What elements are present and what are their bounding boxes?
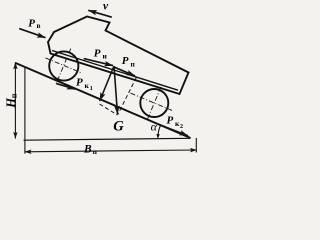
angle alpha arc [158,126,161,138]
wheel right [140,89,168,117]
svg-text:п: п [10,93,19,98]
wheel right axis perpendicular (dash-dot) [147,87,161,121]
force P_k1 (rolling resistance front) arrow on incline [56,84,75,90]
svg-text:P: P [76,77,83,89]
velocity vector v [88,10,112,17]
normal component arrow from CG [100,66,114,101]
svg-text:P: P [28,17,35,29]
svg-text:п: п [131,60,136,69]
truck body outline [48,17,189,95]
svg-text:P: P [94,47,101,59]
label H_p (rotated) [4,93,19,109]
weight G arrow [114,66,118,114]
force P_k2 (rolling resistance rear) arrow on incline [159,124,189,136]
ground base line [24,138,191,140]
dashed parallelogram side 1 [100,104,118,115]
svg-text:В: В [83,143,92,155]
wheel left axis along slope (dash-dot) [46,58,82,73]
svg-text:в: в [37,21,41,30]
svg-text:P: P [122,55,129,67]
B dimension line [25,150,197,152]
svg-text:G: G [113,118,124,134]
right extension line [195,138,197,153]
svg-text:P: P [167,115,174,127]
chassis line [52,51,178,91]
incline vertical edge / left extension line [24,67,26,154]
H dimension line [14,63,16,139]
svg-text:к: к [85,81,90,90]
wheel right axis along slope (dash-dot) [131,93,173,111]
svg-text:2: 2 [180,124,183,130]
wheel left axis perpendicular (dash-dot) [56,49,71,85]
force P_p (grade resistance) arrow [114,67,136,76]
svg-text:и: и [103,52,108,61]
svg-text:1: 1 [90,86,93,92]
dashed parallelogram side 2 [118,78,137,115]
force P_i (inertia) arrow [84,59,113,66]
svg-text:п: п [93,147,98,156]
angle alpha arc arrowhead [156,134,159,139]
svg-text:α: α [151,119,158,133]
incline surface line [15,63,191,138]
wheel left [49,51,78,80]
force P_v (air resistance) arrow [19,29,45,38]
svg-text:v: v [103,0,109,12]
